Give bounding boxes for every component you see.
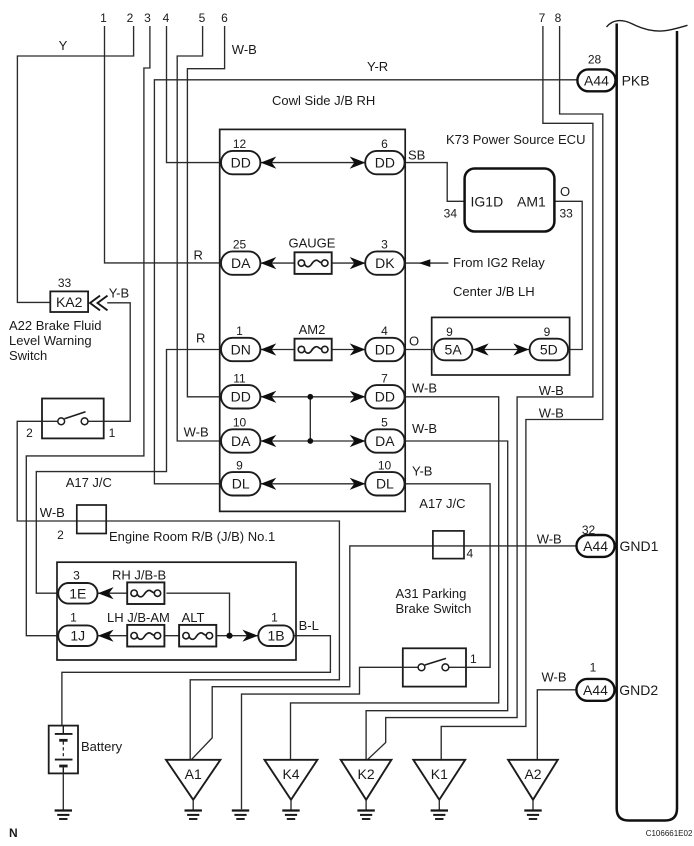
connector DK pin 3: [365, 238, 404, 275]
svg-text:DK: DK: [375, 255, 395, 271]
svg-text:KA2: KA2: [56, 294, 83, 310]
svg-text:3: 3: [381, 238, 388, 252]
svg-text:33: 33: [58, 276, 72, 290]
svg-text:K1: K1: [431, 766, 448, 782]
svg-text:2: 2: [57, 528, 64, 542]
triangle K2: [341, 760, 392, 800]
ECU top break squiggle: [607, 21, 688, 31]
svg-text:Brake Switch: Brake Switch: [396, 601, 472, 616]
svg-text:GND2: GND2: [619, 682, 658, 698]
wire fuse RH J/B-B to 1B junction: [166, 593, 229, 636]
arrow left row3: [261, 343, 277, 355]
svg-text:PKB: PKB: [622, 73, 650, 89]
connector DD pin 6: [365, 137, 404, 174]
connector DA pin 5: [365, 416, 404, 453]
svg-text:R: R: [194, 248, 203, 263]
junction dot 1B: [226, 633, 232, 639]
switch A31 parking brake: [403, 648, 466, 686]
wire K1 to ground: [438, 800, 440, 810]
svg-text:Engine Room R/B (J/B) No.1: Engine Room R/B (J/B) No.1: [109, 529, 275, 544]
svg-text:A17 J/C: A17 J/C: [419, 496, 465, 511]
wire 2 (Y) to KA2: [17, 26, 133, 302]
wire W-B from DA5 to K2: [366, 441, 508, 760]
svg-text:32: 32: [582, 523, 596, 537]
wire 1 to DA25 (R): [105, 26, 222, 263]
wire 5 (W-B) to DA10: [177, 26, 221, 441]
wire K4 to ground: [290, 800, 292, 810]
wire Y-B from KA2 chevron to A22 switch pin 1: [104, 303, 131, 422]
connector 5A pin 9: [434, 325, 473, 360]
wire A2 to ground: [532, 800, 534, 810]
svg-text:5: 5: [381, 416, 388, 430]
svg-text:DD: DD: [375, 389, 395, 405]
svg-text:O: O: [560, 184, 570, 199]
wire W-B from A22 switch pin 2 through Engine Room R/B to A1: [17, 421, 339, 760]
svg-text:A31 Parking: A31 Parking: [396, 586, 467, 601]
connector A44 pin 1 GND2: [576, 661, 614, 701]
svg-text:W-B: W-B: [539, 383, 564, 398]
svg-text:Y: Y: [59, 38, 68, 53]
wire row DD12-DD6: [260, 162, 365, 164]
svg-text:DA: DA: [375, 433, 395, 449]
junction dot row DA10: [307, 438, 313, 444]
svg-text:11: 11: [233, 371, 246, 385]
ground (battery): [55, 811, 72, 820]
wire row 5A-5D: [472, 349, 529, 351]
svg-text:DD: DD: [231, 155, 251, 171]
svg-text:7: 7: [381, 371, 388, 385]
svg-text:1E: 1E: [69, 585, 86, 601]
connector DD pin 12: [221, 137, 260, 174]
arrow right row2: [350, 257, 366, 269]
svg-text:33: 33: [560, 207, 574, 221]
svg-text:C106661E02: C106661E02: [646, 829, 693, 838]
svg-text:Switch: Switch: [9, 348, 47, 363]
svg-text:A44: A44: [583, 682, 608, 698]
svg-text:5D: 5D: [540, 342, 558, 358]
connector KA2 pin 33: [50, 276, 88, 312]
connector A17 J/C pin 4 square: [433, 531, 464, 559]
fuse ALT: [179, 610, 216, 647]
svg-text:W-B: W-B: [412, 421, 437, 436]
svg-text:W-B: W-B: [542, 670, 567, 685]
connector DN pin 1: [221, 324, 260, 361]
Engine Room R/B box: [57, 562, 296, 660]
wire Y-B from DL10 to parking brake switch pin 1: [405, 484, 490, 668]
arrow From IG2 Relay: [419, 259, 431, 267]
wire W-B GND1 from A44-32 to A1 via diagonal: [191, 546, 576, 760]
svg-text:3: 3: [144, 11, 151, 25]
arrow right row4: [350, 391, 366, 403]
Center J/B LH box: [432, 317, 570, 375]
svg-text:Y-B: Y-B: [412, 464, 432, 479]
svg-text:B-L: B-L: [299, 618, 319, 633]
wire 3 to 1J: [26, 26, 150, 636]
svg-text:Battery: Battery: [81, 739, 123, 754]
fuse AM2: [295, 322, 332, 360]
connector A17 J/C pin 2 square: [77, 505, 106, 534]
svg-text:9: 9: [236, 458, 243, 472]
svg-text:RH J/B-B: RH J/B-B: [112, 568, 166, 583]
svg-text:IG1D: IG1D: [471, 194, 504, 210]
ground (K2): [357, 811, 374, 820]
svg-text:W-B: W-B: [539, 406, 564, 421]
wire B-L from 1B to battery: [62, 636, 331, 726]
svg-text:DD: DD: [231, 389, 251, 405]
wire 8 (W-B) to K1: [441, 26, 603, 760]
svg-text:4: 4: [381, 324, 388, 338]
svg-text:Center J/B LH: Center J/B LH: [453, 284, 535, 299]
svg-text:5A: 5A: [445, 342, 463, 358]
svg-text:GAUGE: GAUGE: [289, 236, 336, 251]
wire W-B from A31 switch pin to body ground: [242, 667, 403, 809]
svg-text:4: 4: [467, 547, 474, 561]
connector DA pin 10: [221, 416, 260, 453]
connector DL pin 9: [221, 458, 260, 495]
svg-text:DN: DN: [231, 341, 251, 357]
arrow left row1: [261, 157, 277, 169]
connector A44 pin 32 GND1: [577, 523, 615, 557]
svg-text:10: 10: [233, 416, 247, 430]
wire row DA10-DA5: [260, 440, 365, 442]
connector DL pin 10: [365, 458, 404, 495]
svg-text:8: 8: [555, 11, 562, 25]
svg-text:A44: A44: [584, 72, 609, 88]
connector DD pin 11: [221, 371, 260, 408]
svg-text:Cowl Side J/B RH: Cowl Side J/B RH: [272, 93, 375, 108]
svg-text:LH J/B-AM: LH J/B-AM: [107, 610, 170, 625]
wire row DD11-DD7: [260, 396, 365, 398]
svg-text:W-B: W-B: [232, 42, 257, 57]
fuse GAUGE: [289, 236, 336, 274]
svg-text:9: 9: [544, 325, 551, 339]
svg-text:7: 7: [539, 11, 546, 25]
svg-text:DD: DD: [375, 155, 395, 171]
wire K2 to ground: [365, 800, 367, 810]
wire A1 to ground: [192, 800, 194, 810]
svg-text:SB: SB: [408, 148, 425, 163]
wire from DK3 to IG2 relay arrow: [405, 262, 449, 264]
connector DD pin 7: [365, 371, 404, 408]
wire row 1J to 1B: [98, 635, 259, 637]
svg-text:W-B: W-B: [537, 532, 562, 547]
arrow right row6: [350, 478, 366, 490]
arrow right row3: [350, 343, 366, 355]
wire 4 to DD12: [167, 26, 222, 163]
svg-text:4: 4: [163, 11, 170, 25]
Cowl Side J/B RH box: [220, 129, 406, 511]
wire row DN1-DD4: [260, 349, 365, 351]
svg-text:R: R: [196, 331, 205, 346]
ground (K1): [431, 811, 448, 820]
svg-text:W-B: W-B: [184, 425, 209, 440]
arrow left 1E: [98, 587, 114, 599]
svg-text:Y-R: Y-R: [367, 59, 388, 74]
svg-text:1: 1: [100, 11, 107, 25]
svg-text:A2: A2: [524, 766, 541, 782]
svg-text:1: 1: [70, 611, 77, 625]
svg-text:W-B: W-B: [412, 381, 437, 396]
svg-text:1J: 1J: [70, 628, 85, 644]
wire row DA25-DK3: [260, 262, 365, 264]
svg-text:1B: 1B: [267, 628, 284, 644]
svg-text:2: 2: [26, 426, 33, 440]
wire row DL9-DL10: [260, 483, 365, 485]
connector 1B pin 1: [258, 611, 293, 647]
fuse LH J/B-AM: [107, 610, 170, 647]
ground (A2): [524, 811, 541, 820]
connector DD pin 4: [365, 324, 404, 361]
svg-text:1: 1: [236, 324, 243, 338]
arrow left 5A: [473, 343, 489, 355]
fuse RH J/B-B: [112, 568, 166, 605]
svg-text:2: 2: [127, 11, 134, 25]
svg-text:DD: DD: [375, 341, 395, 357]
wire SB from DD6 to IG1D pin 34: [405, 163, 465, 202]
svg-text:From IG2 Relay: From IG2 Relay: [453, 255, 545, 270]
svg-text:1: 1: [109, 426, 116, 440]
svg-text:ALT: ALT: [182, 610, 205, 625]
wire 7 (W-B) to K2 via diagonal: [367, 26, 593, 760]
switch A22: [42, 399, 104, 439]
arrow left row5: [261, 435, 277, 447]
svg-text:DL: DL: [232, 476, 250, 492]
svg-text:GND1: GND1: [620, 538, 659, 554]
arrow left row2: [261, 257, 277, 269]
svg-text:DL: DL: [376, 476, 394, 492]
arrow right row5: [350, 435, 366, 447]
wire O from AM1 pin 33 to 5D: [554, 201, 582, 349]
svg-text:6: 6: [381, 137, 388, 151]
wire W-B GND2 from A2 to A44-1: [537, 690, 576, 761]
arrow left row4: [261, 391, 277, 403]
svg-text:1: 1: [590, 661, 597, 675]
svg-text:34: 34: [444, 207, 458, 221]
svg-text:3: 3: [73, 569, 80, 583]
ECU connector block IG1D/AM1 U1: [465, 169, 555, 232]
svg-text:10: 10: [378, 458, 392, 472]
ground (K4): [282, 811, 299, 820]
svg-text:12: 12: [233, 137, 247, 151]
svg-text:K73 Power Source ECU: K73 Power Source ECU: [446, 132, 585, 147]
connector 5D pin 9: [530, 325, 569, 360]
svg-text:AM1: AM1: [517, 194, 546, 210]
svg-text:K4: K4: [282, 766, 299, 782]
wire W-B from DD7 to K4: [291, 397, 499, 760]
svg-text:W-B: W-B: [40, 505, 65, 520]
arrow left row6: [261, 478, 277, 490]
svg-text:O: O: [409, 334, 419, 349]
svg-text:N: N: [9, 826, 18, 840]
svg-text:Level Warning: Level Warning: [9, 333, 92, 348]
wire R from DN1 to 1E: [36, 350, 221, 594]
wire junction link DD11/DA10 rows: [309, 397, 311, 441]
svg-text:Y-B: Y-B: [109, 286, 129, 301]
svg-text:1: 1: [271, 611, 278, 625]
arrow right 1B: [242, 630, 258, 642]
svg-text:9: 9: [446, 325, 453, 339]
svg-text:25: 25: [233, 238, 247, 252]
ECU body outline: [617, 24, 677, 821]
triangle A1: [166, 760, 220, 800]
arrow right row1: [350, 157, 366, 169]
battery: [49, 726, 78, 774]
wire row 1E to fuse: [98, 592, 129, 594]
arrow right 5D: [513, 343, 529, 355]
ground (A1): [185, 811, 202, 820]
svg-text:1: 1: [470, 652, 477, 666]
junction dot row DD11: [307, 394, 313, 400]
svg-text:DA: DA: [231, 255, 251, 271]
svg-text:A44: A44: [583, 538, 608, 554]
triangle K1: [413, 760, 465, 800]
svg-text:A17 J/C: A17 J/C: [66, 475, 112, 490]
svg-text:DA: DA: [231, 433, 251, 449]
arrow left 1J: [98, 630, 114, 642]
connector DA pin 25: [221, 238, 260, 275]
wire battery to ground: [62, 773, 64, 809]
wire 6 (W-B) to DD11: [187, 26, 224, 397]
ground (body, plain): [232, 811, 249, 820]
connector 1E pin 3: [58, 569, 97, 604]
connector 1J pin 1: [58, 611, 97, 647]
svg-text:A22 Brake Fluid: A22 Brake Fluid: [9, 318, 102, 333]
connector A44 pin 28 PKB: [577, 53, 615, 92]
wire Y-R from A44 PKB to DL9: [154, 80, 578, 484]
svg-text:AM2: AM2: [299, 322, 326, 337]
wire O from DD4 to 5A: [405, 349, 434, 351]
svg-text:5: 5: [199, 11, 206, 25]
triangle K4: [265, 760, 318, 800]
chevrons Y-B junction: [90, 296, 108, 311]
svg-text:A1: A1: [185, 766, 202, 782]
triangle A2: [508, 760, 558, 800]
svg-text:28: 28: [588, 53, 602, 67]
svg-text:K2: K2: [358, 766, 375, 782]
svg-text:6: 6: [221, 11, 228, 25]
